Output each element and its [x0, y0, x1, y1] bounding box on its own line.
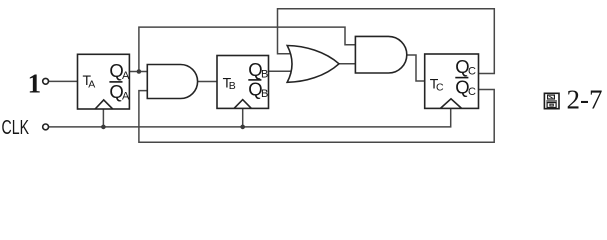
overbar QbarC	[455, 77, 468, 79]
flip-flop TA box	[78, 54, 130, 109]
wire CLK main run with turn up to TC clock	[49, 108, 451, 127]
caption CJK glyph tu (figure) drawn as paths	[544, 93, 559, 108]
svg-text:C: C	[468, 86, 476, 98]
svg-text:C: C	[436, 81, 444, 93]
node junction CLK-TB	[240, 125, 245, 130]
overbar QbarB	[248, 79, 261, 81]
wire QA branch up over to AND2 top input	[139, 27, 357, 71]
svg-text:A: A	[122, 70, 130, 82]
wire QA to AND1	[129, 71, 147, 73]
svg-text:1: 1	[28, 69, 41, 99]
wire AND1 output to TB	[198, 81, 217, 83]
svg-text:A: A	[88, 79, 95, 91]
svg-text:CLK: CLK	[2, 116, 30, 139]
wire CLK stub to TA clock	[102, 109, 104, 127]
clock triangle TA	[95, 100, 113, 109]
and-gate G1	[147, 65, 197, 99]
flip-flop TC box	[425, 54, 479, 108]
svg-text:A: A	[122, 91, 130, 103]
overbar QbarA	[109, 81, 122, 83]
flip-flop TB box	[217, 56, 269, 109]
svg-text:2-7: 2-7	[567, 85, 603, 115]
svg-text:B: B	[229, 80, 236, 92]
wire AND2 output down to TC input	[407, 55, 425, 81]
wire input-1 to TA	[49, 80, 78, 82]
terminal circle CLK	[43, 124, 49, 130]
wire QC feedback: right, up, top run, down to OR top input	[278, 9, 495, 74]
clock triangle TC	[440, 99, 461, 109]
node junction CLK-TA	[101, 125, 106, 130]
wire QB to OR lower input	[269, 70, 295, 72]
or-gate G2	[287, 46, 339, 83]
wire QbarC feedback: TC out right, down, bottom run, up to AND1 lower input	[139, 90, 494, 143]
node junction QA branch	[137, 69, 142, 74]
wire CLK stub to TB clock	[242, 108, 244, 127]
terminal circle input 1	[43, 78, 49, 84]
and-gate G3	[355, 36, 406, 73]
clock triangle TB	[234, 100, 251, 109]
svg-text:C: C	[468, 65, 476, 77]
wire OR output to AND2 lower input	[339, 63, 357, 65]
svg-text:B: B	[261, 88, 268, 100]
